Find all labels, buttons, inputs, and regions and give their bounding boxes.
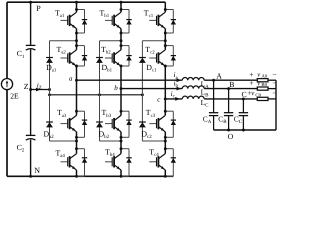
igbt Tc4 <box>149 161 156 163</box>
diode freewheel D of Tb1 <box>126 19 131 21</box>
svg-text:Z: Z <box>24 82 29 91</box>
igbt Tb1 <box>105 19 112 21</box>
wire Z bus <box>31 89 50 91</box>
wire leg c segment 4 <box>164 132 166 154</box>
diode freewheel D of Tc2 <box>171 55 176 57</box>
junction O line capB <box>227 129 230 132</box>
junction clamp c neutral <box>141 93 144 96</box>
wire clamp branch c vertical <box>141 41 143 141</box>
capacitor C2 <box>26 134 36 136</box>
current arrow ib <box>177 87 182 91</box>
wire freewheel loop Tb2 <box>121 45 129 47</box>
igbt Tc1 <box>149 19 156 21</box>
junction P rail leg a <box>75 1 78 4</box>
svg-text:b: b <box>114 84 118 92</box>
wire leg b segment 1 <box>120 2 122 12</box>
diode clamp Db2 <box>96 121 103 123</box>
svg-text:A0: A0 <box>261 74 267 80</box>
wire leg c segment 2 <box>164 29 166 50</box>
svg-text:B: B <box>229 80 234 89</box>
junction clamp a neutral <box>48 93 51 96</box>
diode clamp Dc2 <box>139 121 146 123</box>
igbt Ta4 <box>61 161 68 163</box>
svg-text:A: A <box>216 71 222 80</box>
wire freewheel loop Tc1 <box>165 9 173 11</box>
igbt Ta2 <box>61 57 68 59</box>
igbt Ta3 <box>61 123 68 125</box>
svg-text:N: N <box>34 166 40 175</box>
current arrow ic <box>175 97 180 101</box>
svg-text:a: a <box>69 74 73 82</box>
wire freewheel loop Ta4 <box>77 148 85 150</box>
diode clamp Dc1 <box>139 57 146 59</box>
node A <box>212 79 215 82</box>
wire leg a segment 4 <box>76 132 78 154</box>
current arrow ia <box>177 78 182 82</box>
wire clamp branch b vertical <box>99 41 101 141</box>
node C <box>242 97 245 100</box>
node P <box>29 1 32 4</box>
wire freewheel loop Ta2 <box>77 45 85 47</box>
svg-text:+: + <box>249 78 253 87</box>
wire freewheel loop Tb4 <box>121 148 129 150</box>
inductor LB <box>182 86 204 89</box>
svg-text:C: C <box>242 90 247 99</box>
wire freewheel loop Ta3 <box>77 110 85 112</box>
capacitor CC <box>239 112 248 114</box>
node N <box>29 175 32 178</box>
wire phase b to bus <box>268 88 276 90</box>
wire freewheel loop Tc2 <box>165 45 173 47</box>
wire dc-link mid <box>30 49 32 135</box>
wire phase a to bus <box>268 79 276 81</box>
diode clamp Da2 <box>46 121 53 123</box>
wire N rail <box>7 175 173 177</box>
wire capacitor branch C lower <box>242 116 244 130</box>
wire phase a line to filter <box>77 79 183 81</box>
wire clamp branch b upper link <box>100 40 122 42</box>
wire leg c segment 1 <box>164 2 166 12</box>
wire phase a after inductor <box>204 79 257 81</box>
wire clamp branch b lower link <box>100 140 122 142</box>
wire clamp branch c upper link <box>142 40 165 42</box>
diode freewheel D of Ta1 <box>82 19 87 21</box>
wire clamp branch a lower link <box>50 140 77 142</box>
svg-text:P: P <box>36 4 41 13</box>
wire capacitor branch B lower <box>228 116 230 130</box>
wire leg a segment 1 <box>76 2 78 12</box>
wire leg b segment 2 <box>120 29 122 50</box>
wire capacitor branch A upper <box>213 80 215 113</box>
wire P rail <box>7 1 165 3</box>
wire left dc branch bottom <box>6 90 8 177</box>
diode freewheel D of Tb3 <box>126 119 131 121</box>
wire leg a segment 2 <box>76 29 78 50</box>
wire dc-link branch upper <box>30 2 32 45</box>
node Z bus joins clamp a <box>48 88 51 91</box>
diode freewheel D of Ta3 <box>82 119 87 121</box>
node a <box>75 79 78 82</box>
inductor LA <box>182 77 204 80</box>
diode freewheel D of Ta4 <box>82 157 87 159</box>
dc source 2E <box>1 79 12 90</box>
diode freewheel D of Tb2 <box>126 55 131 57</box>
igbt Tb4 <box>105 161 112 163</box>
wire clamp branch a upper link <box>50 40 77 42</box>
resistor load B <box>257 87 268 90</box>
wire clamp branch c lower link <box>142 140 165 142</box>
wire O line <box>214 129 276 131</box>
wire leg c segment 5 <box>164 170 166 176</box>
node B <box>227 87 230 90</box>
svg-text:C0: C0 <box>255 92 261 98</box>
wire phase c after inductor <box>204 98 257 100</box>
svg-text:2E: 2E <box>10 91 19 100</box>
wire leg b segment 4 <box>120 132 122 154</box>
svg-text:O: O <box>228 132 234 141</box>
wire right bus <box>275 80 277 130</box>
igbt Tb2 <box>105 57 112 59</box>
diode clamp Db1 <box>96 57 103 59</box>
wire freewheel loop Tc3 <box>165 110 173 112</box>
junction O line capC <box>242 129 245 132</box>
diode clamp Da1 <box>46 57 53 59</box>
diode freewheel D of Tc3 <box>171 119 176 121</box>
wire phase b line to filter <box>121 88 182 90</box>
wire freewheel loop Tb3 <box>121 110 129 112</box>
node b <box>120 87 123 90</box>
capacitor C1 <box>26 44 36 46</box>
resistor load A <box>257 79 268 82</box>
current arrow iZ <box>36 88 41 92</box>
wire leg c segment 3 <box>164 66 166 115</box>
wire dc-link branch lower <box>30 140 32 177</box>
wire capacitor branch A lower <box>213 116 215 130</box>
wire freewheel loop Tb1 <box>121 9 129 11</box>
junction clamp b neutral <box>98 93 101 96</box>
wire leg a segment 5 <box>76 170 78 176</box>
wire phase c line to filter <box>165 98 182 100</box>
wire neutral interconnect <box>50 94 143 96</box>
wire phase b after inductor <box>204 88 257 90</box>
igbt Tb3 <box>105 123 112 125</box>
resistor load C <box>257 97 268 100</box>
diode freewheel D of Tc4 <box>171 157 176 159</box>
capacitor CA <box>209 112 218 114</box>
diode freewheel D of Ta2 <box>82 55 87 57</box>
igbt Ta1 <box>61 19 68 21</box>
igbt Tc3 <box>149 123 156 125</box>
diode freewheel D of Tc1 <box>171 19 176 21</box>
inductor LC <box>182 96 204 99</box>
wire left dc branch top <box>6 2 8 78</box>
wire leg b segment 3 <box>120 66 122 115</box>
diode freewheel D of Tb4 <box>126 157 131 159</box>
wire capacitor branch C upper <box>242 99 244 113</box>
wire freewheel loop Ta1 <box>77 9 85 11</box>
wire capacitor branch B upper <box>228 89 230 113</box>
capacitor CB <box>224 112 233 114</box>
igbt Tc2 <box>149 57 156 59</box>
node c <box>164 97 167 100</box>
wire freewheel loop Tc4 <box>165 148 173 150</box>
wire phase c to bus <box>268 98 276 100</box>
wire leg b segment 5 <box>120 170 122 176</box>
wire leg a segment 3 <box>76 66 78 115</box>
junction P rail leg b <box>120 1 123 4</box>
node Z <box>29 88 32 91</box>
svg-text:B0: B0 <box>261 82 267 88</box>
wire clamp branch a vertical <box>49 41 51 141</box>
